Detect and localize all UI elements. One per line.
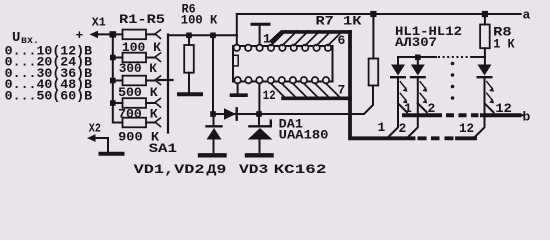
LED HL12 (478, 65, 494, 104)
wire group bus top (pins 1-6 hatch) (271, 31, 343, 46)
wire LED12 entry to line b (485, 103, 494, 112)
wire LED1 to harness (389, 103, 398, 136)
svg-text:1 К: 1 К (493, 37, 515, 52)
svg-text:12: 12 (263, 88, 276, 103)
node junction R2 (110, 55, 116, 61)
svg-text:Д9: Д9 (206, 162, 226, 177)
op-amp U1 key notch (233, 55, 238, 66)
svg-text:R7 1К: R7 1К (316, 14, 362, 29)
ground VD1 (200, 153, 225, 157)
svg-text:2: 2 (399, 121, 407, 136)
resistor R8 (480, 14, 515, 65)
ground IC pin (237, 83, 239, 93)
ground R6 (179, 92, 201, 96)
node junction R8 rail (482, 11, 488, 17)
LED HL2 (411, 57, 427, 103)
wire LED anode line (398, 57, 436, 65)
wire supply rail a (237, 13, 521, 15)
svg-text:X2: X2 (89, 121, 101, 135)
svg-text:1: 1 (378, 120, 386, 135)
ground VD3 (247, 153, 272, 157)
wire LED1 entry to line b (398, 103, 407, 112)
node junction R6 top (186, 33, 192, 39)
wire down to diodes (212, 35, 214, 114)
svg-text:VD1,VD2: VD1,VD2 (134, 162, 205, 177)
ground X2 (101, 152, 123, 156)
wire input ladder bus (113, 34, 123, 123)
resistor R5 (118, 118, 159, 145)
svg-text:300 К: 300 К (119, 61, 157, 76)
svg-text:КС162: КС162 (274, 162, 327, 177)
node junction VD1/VD2 (210, 111, 216, 117)
resistor R2 (113, 53, 157, 76)
diode VD1 (207, 116, 222, 152)
svg-text:R1-R5: R1-R5 (119, 12, 165, 27)
pin top row circles (234, 45, 332, 51)
svg-text:a: a (523, 7, 531, 22)
svg-text:700 К: 700 К (118, 107, 158, 122)
node junction X1/R1 (110, 31, 117, 37)
wire group bus bottom (pins 7-12 hatch) (271, 84, 341, 99)
wire LED2 to harness (409, 103, 418, 136)
op-amp U1 label DA1 UAA180 (279, 117, 329, 143)
wire IC pin3 tap with bar (259, 26, 261, 45)
svg-text:АЛ307: АЛ307 (395, 35, 437, 50)
diode VD2 (224, 108, 237, 119)
svg-text:0...50(60)В: 0...50(60)В (5, 88, 93, 103)
node Uvx input label (12, 30, 39, 47)
svg-text:1: 1 (263, 32, 271, 47)
svg-text:100 К: 100 К (181, 13, 218, 28)
wire IC pin to supply rail (236, 14, 238, 45)
op-amp U1 body (IC DA1 DIP outline) (233, 46, 333, 82)
svg-text:X1: X1 (92, 16, 106, 30)
resistor R4 (113, 98, 158, 121)
LED group label HL1-HL12 AL307 (395, 24, 462, 50)
LED HL1 (391, 65, 407, 104)
node junction R3 (110, 78, 116, 84)
node junction R7 rail (370, 11, 376, 17)
wire LED12 to harness (476, 103, 485, 136)
svg-text:+: + (76, 28, 84, 43)
wire line b (404, 113, 440, 117)
svg-text:UAA180: UAA180 (279, 128, 329, 143)
node junction VD2/VD3 (256, 111, 262, 117)
svg-text:VD3: VD3 (239, 162, 268, 177)
resistor R1 (113, 12, 165, 55)
switch SA1 (149, 30, 178, 156)
wire SA1 common to IC (168, 34, 237, 36)
svg-text:b: b (523, 110, 531, 125)
svg-text:SA1: SA1 (149, 141, 178, 156)
ellipsis dots between LEDs (451, 62, 455, 100)
node junction LED2 anode (415, 55, 421, 61)
zener VD3 (248, 116, 273, 152)
terminal X1 (76, 16, 113, 44)
node junction VD feed (210, 33, 216, 39)
wire diode row to R7 (213, 86, 373, 115)
svg-text:12: 12 (459, 121, 474, 136)
terminal X2 (87, 121, 108, 151)
wire LED2 entry to line b (418, 103, 427, 112)
resistor R6 (181, 2, 218, 92)
wire IC bottom pin3 to zener node (258, 83, 260, 111)
resistor R3 (113, 76, 158, 101)
wire group bus vertical and lower harness (350, 32, 414, 138)
pin bottom row circles (234, 77, 329, 83)
node junction R4 (110, 100, 116, 106)
resistor R7 (316, 14, 379, 86)
